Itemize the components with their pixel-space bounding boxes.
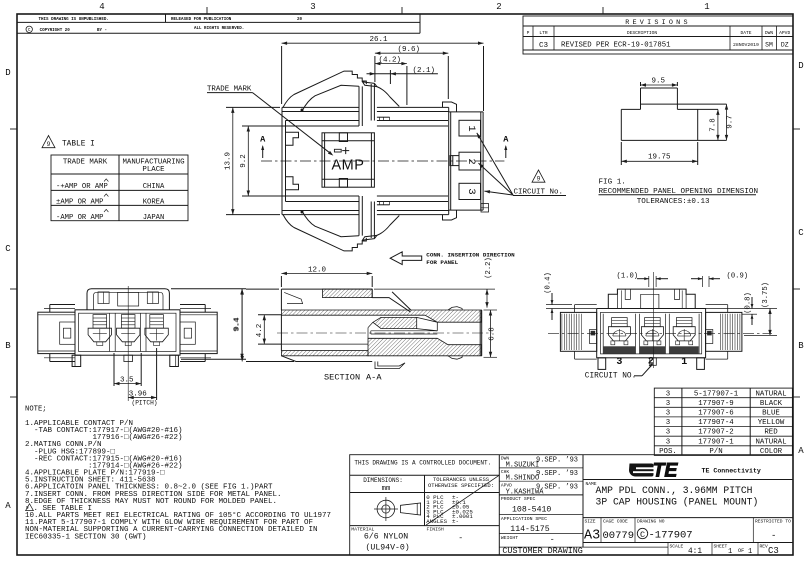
- svg-text:DWN: DWN: [765, 30, 774, 36]
- fig 1 caption: [599, 179, 759, 207]
- title block outer: [350, 455, 793, 555]
- svg-text:C: C: [798, 228, 804, 238]
- top view center block: [322, 133, 374, 187]
- projection symbol: [350, 497, 500, 526]
- svg-text:CIRCUIT NO.: CIRCUIT NO.: [585, 373, 636, 381]
- svg-text:3.5: 3.5: [120, 376, 134, 384]
- svg-text:177907-4: 177907-4: [698, 419, 734, 427]
- zone row labels right: [793, 61, 804, 456]
- svg-text:C3: C3: [768, 546, 779, 556]
- zone row labels left: [5, 68, 17, 511]
- svg-text:CHINA: CHINA: [143, 183, 165, 191]
- svg-text:DZ: DZ: [781, 42, 789, 49]
- section A-A top wall hatch: [281, 310, 481, 322]
- svg-text:BLACK: BLACK: [760, 400, 783, 408]
- svg-text:LTR: LTR: [539, 30, 548, 36]
- product spec cell: [499, 496, 583, 514]
- customer drawing cell: [502, 546, 582, 556]
- rear dim (3.75): [744, 282, 777, 335]
- svg-text:D: D: [5, 68, 10, 78]
- section arrow A left: [260, 134, 266, 158]
- svg-text:-AMP OR AMP: -AMP OR AMP: [56, 214, 103, 222]
- svg-text:3P CAP HOUSING (PANEL MOUNT): 3P CAP HOUSING (PANEL MOUNT): [596, 497, 759, 508]
- rear view circuit numbers: [616, 357, 687, 368]
- svg-text:-+AMP OR AMP: -+AMP OR AMP: [56, 183, 108, 191]
- front view right wing: [180, 305, 217, 362]
- rear dim (0.8): [706, 292, 777, 325]
- svg-text:-: -: [550, 536, 555, 545]
- svg-text:C3: C3: [539, 42, 549, 50]
- section A-A bottom tab: [375, 362, 405, 369]
- svg-text:5-177907-1: 5-177907-1: [694, 390, 739, 398]
- svg-text:REV: REV: [760, 543, 769, 549]
- svg-text:APVD: APVD: [779, 30, 790, 36]
- svg-text:DIMENSIONS:: DIMENSIONS:: [363, 477, 403, 484]
- svg-text:2: 2: [465, 158, 477, 164]
- svg-text:7.8: 7.8: [710, 118, 718, 132]
- size cage drawing no cells: [583, 518, 793, 544]
- header strip copyright row: [26, 26, 244, 33]
- dim (4.2): [375, 57, 407, 105]
- svg-text:AMP PDL CONN., 3.96MM PITCH: AMP PDL CONN., 3.96MM PITCH: [596, 485, 753, 496]
- svg-text:(2.2): (2.2): [485, 257, 493, 279]
- section A-A upper latch finger: [373, 317, 437, 330]
- svg-text:1: 1: [728, 548, 732, 556]
- svg-text:9.5: 9.5: [652, 78, 666, 86]
- svg-text:TE: TE: [653, 460, 679, 482]
- svg-text:3: 3: [666, 390, 670, 398]
- svg-text:3: 3: [310, 2, 315, 12]
- svg-text:(0.4): (0.4): [544, 272, 552, 294]
- TE logo: [583, 455, 793, 547]
- svg-text:±-: ±-: [452, 518, 459, 525]
- svg-text:177907-6: 177907-6: [698, 410, 733, 418]
- section dim 2.2: [374, 257, 495, 307]
- front view left wing: [38, 305, 75, 362]
- svg-text:9: 9: [537, 175, 541, 182]
- svg-text:3: 3: [666, 410, 670, 418]
- svg-text:P: P: [527, 30, 530, 36]
- top view body outline: [282, 107, 449, 214]
- svg-text:A: A: [260, 134, 266, 144]
- svg-text:CUSTOMER DRAWING: CUSTOMER DRAWING: [502, 546, 582, 556]
- rear view centerline: [548, 272, 772, 368]
- svg-text:(PITCH): (PITCH): [132, 400, 158, 407]
- front view contact 2: [116, 315, 139, 346]
- circuit cavity 1: [459, 120, 481, 136]
- trade mark label: [207, 86, 333, 156]
- svg-text:9.2: 9.2: [240, 154, 248, 168]
- section A-A latch stem hatch: [323, 289, 373, 298]
- svg-text:9.SEP. ’93: 9.SEP. ’93: [536, 457, 578, 465]
- svg-text:±AMP OR AMP: ±AMP OR AMP: [56, 198, 103, 206]
- svg-text:YELLOW: YELLOW: [758, 419, 785, 427]
- section dim 12.0: [281, 266, 372, 287]
- front view cavity walls: [110, 313, 146, 351]
- svg-text:(4.2): (4.2): [379, 57, 402, 65]
- svg-text:(1.0): (1.0): [617, 273, 639, 281]
- material cell: [351, 527, 409, 553]
- svg-text:PLACE: PLACE: [142, 166, 165, 174]
- drawn checked approved cells: [499, 456, 583, 497]
- svg-text:SECTION: SECTION: [324, 373, 360, 383]
- rear view left wing: [560, 305, 596, 360]
- AMP trade mark logo: [332, 147, 365, 173]
- svg-text:REVISIONS: REVISIONS: [625, 19, 691, 27]
- revisions table: [523, 16, 793, 54]
- front view contact 1: [88, 315, 111, 346]
- svg-text:JAPAN: JAPAN: [143, 214, 165, 222]
- svg-text:19.75: 19.75: [648, 154, 671, 162]
- section A-A top outline diagonals: [372, 292, 411, 312]
- svg-text:BLUE: BLUE: [762, 410, 780, 418]
- svg-text:A: A: [5, 501, 11, 511]
- table I flag: [42, 136, 95, 149]
- svg-text:A: A: [798, 446, 804, 456]
- circuit cavity 2: [450, 152, 481, 170]
- dim 9.2: [240, 126, 302, 196]
- rear view contact circuit 3: [608, 318, 630, 345]
- svg-text:-: -: [458, 534, 463, 543]
- rear view bottom tabs: [598, 358, 704, 370]
- svg-text:THIS DRAWING IS A CONTROLLED D: THIS DRAWING IS A CONTROLLED DOCUMENT.: [354, 460, 491, 467]
- svg-text:00779: 00779: [603, 530, 635, 542]
- conn insertion direction arrow: [390, 252, 515, 267]
- parts table: [654, 388, 792, 456]
- svg-text:114-5175: 114-5175: [510, 525, 549, 534]
- svg-text:CAGE CODE: CAGE CODE: [603, 519, 628, 525]
- svg-text:1: 1: [704, 2, 709, 12]
- section arrow A right: [503, 134, 509, 158]
- svg-text:B: B: [5, 341, 11, 351]
- section dim 4.2: [256, 315, 281, 344]
- top view centerline: [261, 160, 504, 162]
- rear view contact circuit 1: [673, 318, 695, 345]
- svg-text:(0.9): (0.9): [727, 273, 749, 281]
- front view dim 9.4: [171, 289, 246, 359]
- svg-text:COPYRIGHT 20: COPYRIGHT 20: [40, 29, 71, 33]
- svg-text:(9.6): (9.6): [398, 46, 421, 54]
- svg-text:SCALE: SCALE: [670, 543, 684, 549]
- svg-text:ANGLES: ANGLES: [426, 518, 447, 525]
- svg-text:A-A: A-A: [366, 373, 382, 383]
- svg-text:RED: RED: [764, 429, 778, 437]
- section A-A top left block: [281, 289, 372, 310]
- svg-text:-: -: [771, 531, 776, 541]
- circuit no label top view: [477, 133, 566, 196]
- svg-text:M.SUZUKI: M.SUZUKI: [506, 461, 540, 469]
- circuit cavity 3: [459, 183, 481, 199]
- svg-text:SIZE: SIZE: [585, 519, 596, 525]
- svg-text:FINISH: FINISH: [427, 527, 444, 533]
- svg-text:(UL94V-0): (UL94V-0): [366, 542, 410, 552]
- svg-text:-177907: -177907: [649, 530, 693, 542]
- svg-text:C: C: [28, 28, 31, 33]
- svg-text:NATURAL: NATURAL: [755, 390, 786, 398]
- section dim 6.8: [484, 310, 498, 357]
- svg-text:A3: A3: [584, 529, 600, 544]
- svg-text:4:1: 4:1: [688, 548, 702, 556]
- svg-text:C: C: [640, 530, 645, 540]
- svg-text:6.8: 6.8: [489, 327, 497, 341]
- front view dim 3.5: [114, 353, 141, 386]
- svg-text:FIG 1.: FIG 1.: [599, 179, 626, 187]
- svg-text:9.SEP. ’93: 9.SEP. ’93: [536, 484, 578, 492]
- svg-text:12.0: 12.0: [308, 266, 327, 274]
- svg-text:OF: OF: [738, 548, 744, 554]
- svg-text:(0.8): (0.8): [745, 292, 753, 314]
- svg-text:SM: SM: [765, 42, 773, 49]
- header strip unpublished row: [17, 14, 420, 33]
- svg-text:3.96: 3.96: [129, 390, 148, 398]
- svg-text:RELEASED FOR PUBLICATION: RELEASED FOR PUBLICATION: [171, 18, 232, 22]
- svg-text:CONN. INSERTION DIRECTION: CONN. INSERTION DIRECTION: [426, 252, 515, 259]
- svg-text:A: A: [503, 134, 509, 144]
- svg-text:4.2: 4.2: [256, 324, 264, 338]
- rear dim (0.9): [691, 273, 748, 287]
- svg-text:13.9: 13.9: [225, 152, 233, 170]
- svg-text:THIS DRAWING IS UNPUBLISHED.: THIS DRAWING IS UNPUBLISHED.: [39, 18, 109, 22]
- rear dim (1.0): [617, 273, 669, 287]
- svg-text:177907-2: 177907-2: [698, 429, 733, 437]
- svg-text:DATE: DATE: [740, 30, 751, 36]
- svg-text:TRADE MARK: TRADE MARK: [63, 159, 108, 167]
- section A-A right end: [448, 307, 482, 360]
- rear view contact circuit 2: [641, 318, 663, 345]
- svg-text:(2.1): (2.1): [413, 67, 436, 75]
- section A-A caption: [324, 373, 382, 383]
- svg-text:108-5410: 108-5410: [512, 505, 551, 514]
- name cell: [583, 481, 793, 518]
- svg-text:M.SHINDO: M.SHINDO: [506, 475, 540, 483]
- svg-text:WEIGHT: WEIGHT: [501, 535, 518, 541]
- fig 1 dim 9.5: [641, 78, 678, 87]
- rear view top protrusion: [608, 289, 695, 308]
- fig 1 dim 9.7: [725, 104, 735, 140]
- bottom latch arm: [283, 196, 399, 251]
- svg-text:mm: mm: [382, 485, 391, 493]
- section A-A bottom walls: [281, 338, 481, 361]
- rear view right wing: [706, 305, 742, 360]
- fig 1 dim 19.75: [621, 142, 697, 165]
- svg-text:20: 20: [297, 18, 303, 22]
- finish cell: [427, 527, 464, 544]
- application spec cell: [499, 516, 583, 534]
- controlled document cell: [350, 455, 500, 555]
- dim 13.9: [225, 107, 281, 214]
- rear view cavity walls: [603, 314, 699, 354]
- svg-text:ALL RIGHTS RESERVED.: ALL RIGHTS RESERVED.: [194, 27, 244, 31]
- svg-text:1: 1: [465, 125, 477, 131]
- table I trade mark table: [51, 155, 188, 222]
- svg-text:9: 9: [47, 141, 51, 148]
- svg-text:3: 3: [666, 400, 670, 408]
- svg-text:AMP: AMP: [332, 157, 365, 173]
- rear view circuit no label: [585, 363, 653, 381]
- tolerances cell: [426, 475, 499, 525]
- svg-text:C: C: [5, 244, 11, 254]
- front view centerline: [127, 286, 129, 401]
- scale sheet rev row: [668, 543, 779, 557]
- section dim 9.4: [234, 289, 294, 361]
- svg-text:PRODUCT SPEC: PRODUCT SPEC: [501, 496, 536, 502]
- svg-text:NOTE;: NOTE;: [25, 406, 47, 414]
- dim (9.6): [375, 46, 448, 99]
- svg-text:D: D: [798, 61, 803, 71]
- svg-text:177907-1: 177907-1: [698, 438, 734, 446]
- svg-text:3: 3: [666, 419, 670, 427]
- svg-text:DRAWING NO: DRAWING NO: [637, 519, 665, 525]
- svg-text:3: 3: [666, 429, 670, 437]
- svg-text:TABLE I: TABLE I: [62, 141, 95, 149]
- svg-text:NATURAL: NATURAL: [755, 438, 786, 446]
- svg-text:1: 1: [748, 548, 752, 556]
- svg-text:9: 9: [26, 505, 29, 511]
- svg-text:(3.75): (3.75): [762, 282, 770, 308]
- front view top protrusion: [87, 289, 169, 310]
- rear dim (0.4): [544, 272, 596, 320]
- front view main body: [75, 310, 180, 355]
- svg-text:TOLERANCES:±0.13: TOLERANCES:±0.13: [637, 198, 710, 206]
- svg-text:1: 1: [681, 357, 687, 368]
- notes block: [25, 406, 331, 542]
- svg-text:BY -: BY -: [97, 29, 107, 33]
- svg-text:177907-9: 177907-9: [698, 400, 733, 408]
- svg-text:9.4: 9.4: [234, 318, 242, 332]
- svg-text:2: 2: [496, 2, 501, 12]
- weight cell: [499, 535, 668, 547]
- svg-text:FOR PANEL: FOR PANEL: [426, 259, 458, 266]
- dimensions cell: [350, 475, 500, 525]
- rear view main body: [597, 309, 706, 358]
- svg-text:RESTRICTED TO: RESTRICTED TO: [755, 519, 791, 525]
- section A-A centerline: [277, 332, 492, 334]
- svg-text:IEC60335-1 SECTION 30 (GWT): IEC60335-1 SECTION 30 (GWT): [25, 533, 147, 541]
- svg-text:REVISED PER ECR-19-017851: REVISED PER ECR-19-017851: [561, 41, 671, 49]
- section A-A cavity interior rails: [281, 315, 437, 350]
- svg-text:28NOV2019: 28NOV2019: [733, 42, 759, 48]
- zone column labels top: [99, 2, 709, 14]
- top latch arm: [283, 71, 399, 126]
- top view left cavity hooks: [286, 132, 299, 190]
- front view bottom tabs: [72, 355, 178, 366]
- svg-text:4: 4: [99, 2, 104, 12]
- front view dim 3.96 pitch: [128, 348, 157, 407]
- svg-text:3: 3: [666, 438, 670, 446]
- svg-text:6/6 NYLON: 6/6 NYLON: [364, 531, 408, 541]
- svg-text:9.SEP. ’93: 9.SEP. ’93: [536, 470, 578, 478]
- svg-text:DESCRIPTION: DESCRIPTION: [627, 30, 658, 36]
- fig 1 panel opening outline: [621, 88, 726, 140]
- svg-text:B: B: [798, 341, 804, 351]
- front view contact 3: [145, 315, 168, 346]
- fig 1 dim 7.8: [710, 109, 720, 140]
- svg-text:SHEET: SHEET: [714, 543, 728, 549]
- svg-text:3: 3: [616, 357, 622, 368]
- dim (2.1): [367, 67, 438, 84]
- rear view cavity bottom shading: [604, 346, 699, 353]
- top view right mating section: [443, 102, 489, 220]
- svg-text:APPLICATION SPEC: APPLICATION SPEC: [501, 516, 547, 522]
- svg-text:9.7: 9.7: [727, 115, 735, 129]
- svg-text:TE Connectivity: TE Connectivity: [702, 467, 761, 474]
- svg-text:3: 3: [465, 188, 477, 194]
- svg-text:26.1: 26.1: [370, 36, 389, 44]
- dim 26.1: [282, 36, 484, 111]
- svg-text:KOREA: KOREA: [143, 198, 165, 206]
